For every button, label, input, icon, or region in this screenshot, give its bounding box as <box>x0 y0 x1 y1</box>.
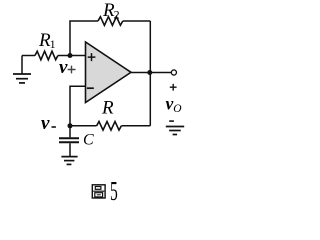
node output (junction dot) <box>147 70 152 75</box>
- polarity at output <box>169 120 174 122</box>
wire v- node to R <box>70 125 97 127</box>
node v- (junction dot) <box>68 123 73 128</box>
svg-text:C: C <box>83 132 94 149</box>
ground (bottom, under C) <box>61 157 77 165</box>
wire ground to R1 <box>22 55 35 57</box>
svg-text:5: 5 <box>110 176 118 206</box>
svg-text:v: v <box>41 113 50 134</box>
svg-text:v: v <box>59 57 68 78</box>
label v+ <box>59 57 76 78</box>
resistor R1 <box>35 51 58 60</box>
+ polarity at output <box>170 84 177 91</box>
node v+ (junction dot) <box>68 53 73 58</box>
svg-text:R: R <box>101 98 114 119</box>
wire right rail (feedback column) <box>149 21 151 126</box>
wire R2 to right rail <box>123 20 151 22</box>
op-amp U1 <box>86 42 132 103</box>
wire R to right rail <box>121 125 150 127</box>
capacitor C <box>59 126 79 156</box>
wire R1 to v+ node <box>58 55 86 57</box>
ground (right, output reference) <box>166 127 184 135</box>
ground (left) <box>13 56 31 83</box>
resistor R <box>97 122 122 131</box>
caption 圖 (drawn glyph) <box>92 185 105 198</box>
output wire <box>131 72 171 74</box>
wire v+ node up to top rail <box>70 21 98 56</box>
output terminal (open circle) <box>171 70 176 75</box>
label v- <box>41 113 56 134</box>
resistor R2 <box>98 17 123 26</box>
wire op-amp minus input to v- node <box>70 86 86 126</box>
